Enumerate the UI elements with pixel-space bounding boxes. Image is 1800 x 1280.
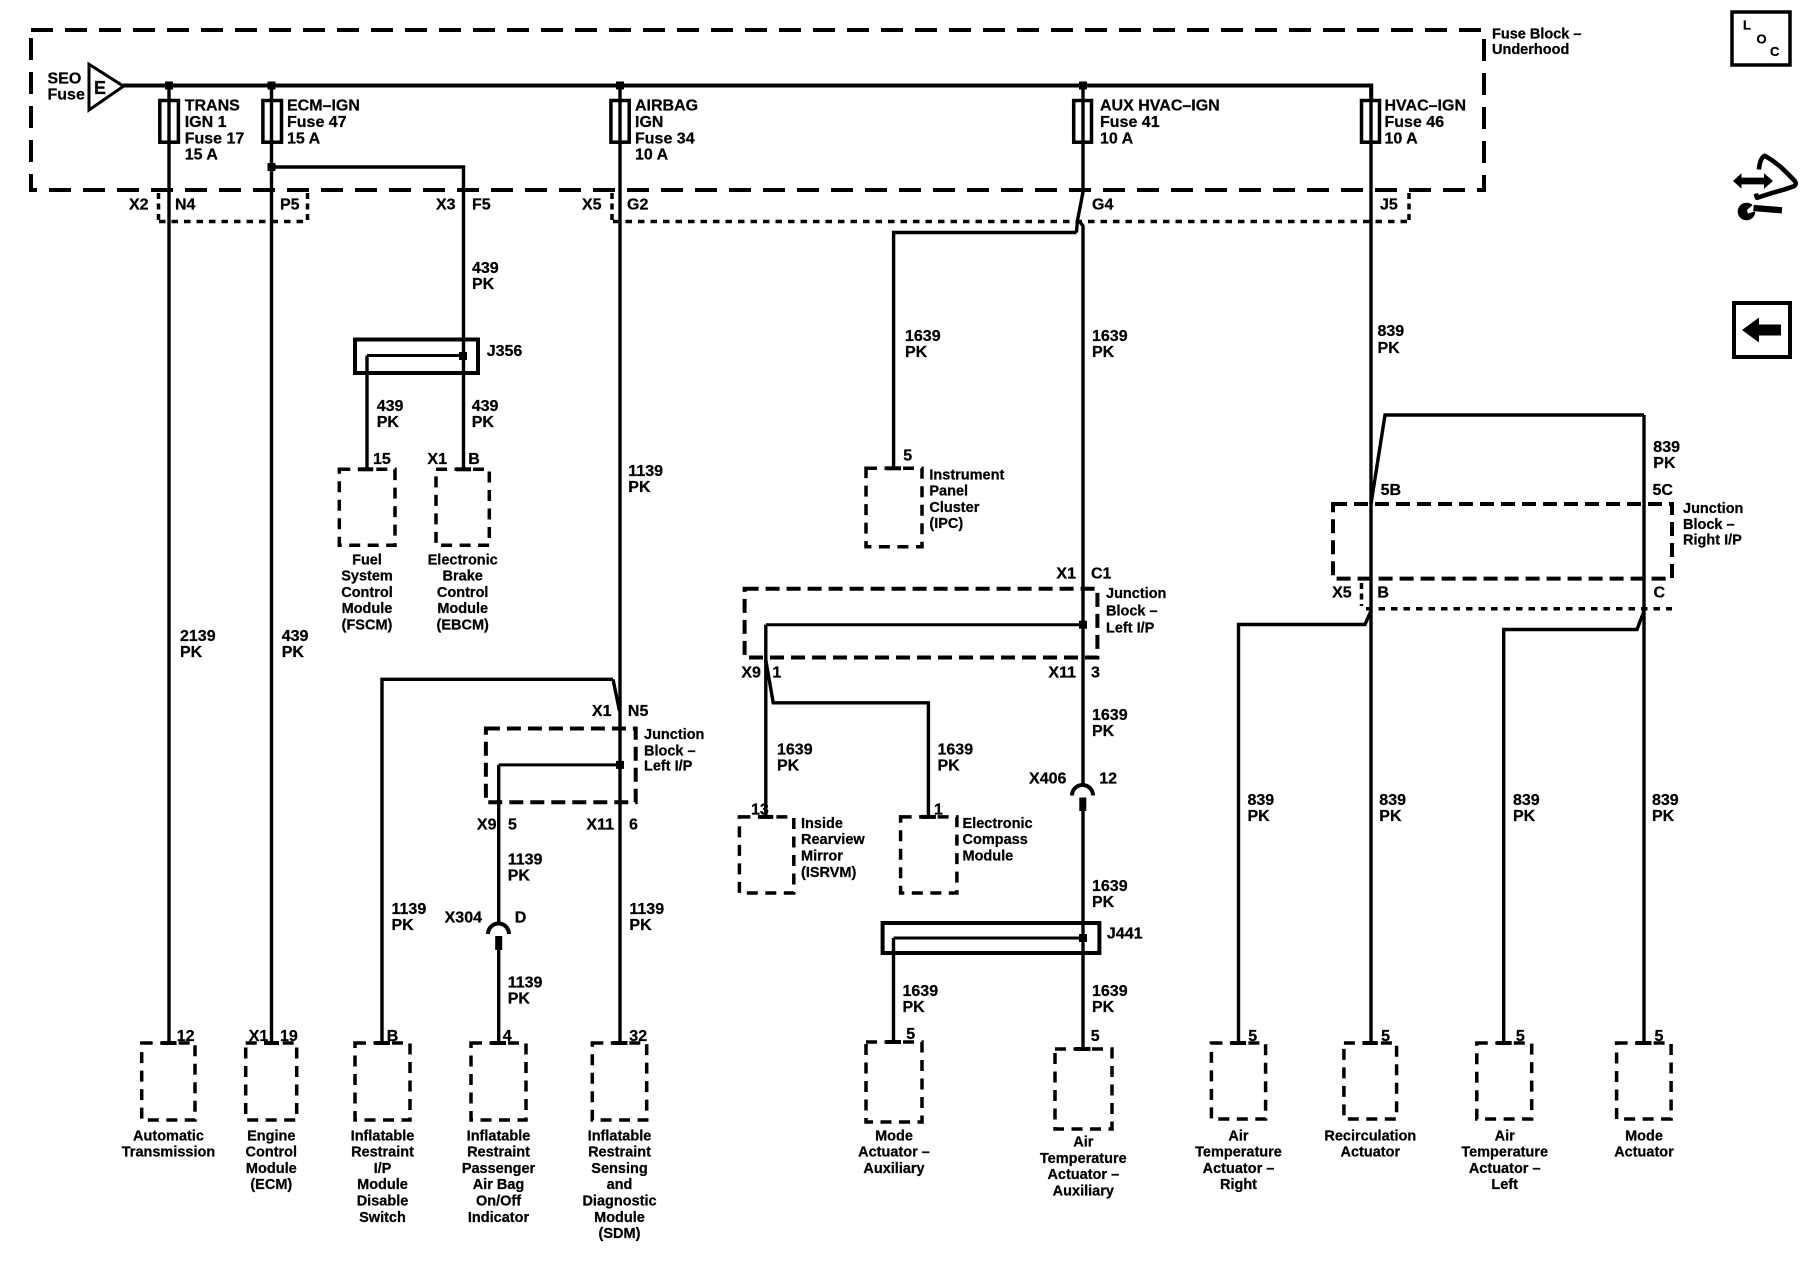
wire 1639 PK X11-3 down <box>1092 707 1128 740</box>
wire 1139 PK X304 to indicator <box>497 950 500 1043</box>
svg-text:IGN: IGN <box>635 114 663 131</box>
connector mode actuator auxiliary box <box>866 1042 922 1122</box>
svg-text:Passenger: Passenger <box>462 1161 536 1177</box>
svg-text:PK: PK <box>1248 808 1271 825</box>
svg-text:1139: 1139 <box>629 901 664 918</box>
wire inside J356 <box>367 354 463 357</box>
junction block - left I/P middle dashed box <box>745 589 1098 658</box>
svg-text:J5: J5 <box>1380 196 1398 213</box>
svg-text:PK: PK <box>1092 723 1115 740</box>
svg-text:G2: G2 <box>627 196 648 213</box>
icon double arrow with wrench <box>1733 156 1796 221</box>
svg-text:839: 839 <box>1652 792 1679 809</box>
svg-text:Module: Module <box>357 1177 408 1193</box>
connector ISRVM box <box>739 817 793 893</box>
svg-text:Sensing: Sensing <box>591 1161 647 1177</box>
wire branch C to air temperature left <box>1504 611 1644 1043</box>
wire inside J441 <box>894 937 1084 940</box>
IPC label <box>929 467 1004 532</box>
svg-text:Recirculation: Recirculation <box>1324 1128 1416 1144</box>
svg-text:G4: G4 <box>1092 196 1113 213</box>
FSCM label <box>341 552 393 633</box>
compass label <box>963 816 1033 865</box>
svg-text:Restraint: Restraint <box>588 1145 651 1161</box>
svg-text:D: D <box>515 910 527 927</box>
svg-text:Auxiliary: Auxiliary <box>863 1161 924 1177</box>
svg-text:Actuator: Actuator <box>1340 1145 1400 1161</box>
pin X1 C1 <box>1056 565 1111 582</box>
svg-text:Fuse: Fuse <box>48 87 85 104</box>
node in middle junction block <box>1079 621 1087 629</box>
node at fuse 41 tap <box>1079 82 1087 90</box>
svg-text:Fuse 41: Fuse 41 <box>1100 114 1160 131</box>
right junction block strip separator <box>1360 583 1364 606</box>
svg-text:Temperature: Temperature <box>1040 1151 1127 1167</box>
svg-text:5C: 5C <box>1653 482 1674 499</box>
svg-text:Temperature: Temperature <box>1195 1145 1282 1161</box>
svg-text:839: 839 <box>1379 792 1406 809</box>
connector mode actuator box <box>1617 1043 1672 1119</box>
pin X9 1 <box>741 664 781 681</box>
svg-text:Temperature: Temperature <box>1461 1145 1548 1161</box>
svg-text:1639: 1639 <box>1092 328 1128 345</box>
svg-text:B: B <box>1377 585 1389 602</box>
svg-text:Control: Control <box>341 585 393 601</box>
junction block - right I/P dashed box <box>1333 504 1672 579</box>
svg-text:J441: J441 <box>1107 926 1143 943</box>
svg-text:X1: X1 <box>592 703 612 720</box>
svg-text:N4: N4 <box>175 196 196 213</box>
svg-text:Brake: Brake <box>443 569 483 585</box>
svg-text:Fuse Block –: Fuse Block – <box>1492 26 1581 42</box>
svg-text:Module: Module <box>437 601 488 617</box>
connector ECM box <box>246 1043 297 1120</box>
svg-text:SEO: SEO <box>48 71 82 88</box>
wire branch 1639 PK to IPC <box>894 233 1077 469</box>
svg-text:Cluster: Cluster <box>929 500 979 516</box>
svg-text:Actuator: Actuator <box>1614 1145 1674 1161</box>
wire 839 PK label to recirculation <box>1379 792 1406 825</box>
svg-text:PK: PK <box>903 999 926 1016</box>
svg-text:PK: PK <box>508 868 531 885</box>
svg-text:Instrument: Instrument <box>929 467 1004 483</box>
wire 1639 PK X9-1 to ISRVM <box>764 625 767 817</box>
wire 1639 PK X406 down <box>1081 811 1084 1049</box>
svg-text:1639: 1639 <box>1092 983 1128 1000</box>
svg-text:B: B <box>468 451 480 468</box>
svg-text:IGN 1: IGN 1 <box>185 114 227 131</box>
svg-text:Fuse 47: Fuse 47 <box>287 114 347 131</box>
svg-text:10 A: 10 A <box>1385 130 1419 147</box>
svg-text:Air: Air <box>1495 1128 1516 1144</box>
wire diagonal branch to compass <box>766 660 929 817</box>
svg-text:X3: X3 <box>436 196 456 213</box>
svg-text:Actuator –: Actuator – <box>1047 1167 1119 1183</box>
svg-text:TRANS: TRANS <box>185 98 240 115</box>
wire branch to disable switch <box>382 679 613 1043</box>
svg-text:439: 439 <box>472 398 499 415</box>
wire 2139 PK fuse17 to automatic transmission <box>167 86 170 1044</box>
svg-text:X9: X9 <box>477 817 497 834</box>
svg-text:Inside: Inside <box>801 816 843 832</box>
fuse F46 HVAC-IGN <box>1362 101 1380 143</box>
svg-text:10 A: 10 A <box>635 146 669 163</box>
svg-text:1139: 1139 <box>628 463 663 480</box>
svg-text:C: C <box>1770 44 1780 59</box>
svg-text:Transmission: Transmission <box>122 1145 215 1161</box>
wire 439 PK fuse47 to ECM <box>270 86 273 1044</box>
EBCM label <box>428 552 498 633</box>
connector J356 <box>355 340 522 374</box>
svg-text:Left I/P: Left I/P <box>1106 621 1155 637</box>
bottom pins row <box>177 1026 1664 1045</box>
svg-text:Disable: Disable <box>357 1194 409 1210</box>
wire branch B to air temperature right <box>1239 611 1372 1043</box>
svg-text:Fuse 34: Fuse 34 <box>635 130 695 147</box>
svg-text:Fuel: Fuel <box>352 552 382 568</box>
svg-text:(EBCM): (EBCM) <box>437 618 490 634</box>
svg-text:X1: X1 <box>427 451 447 468</box>
svg-text:5: 5 <box>508 817 517 834</box>
svg-text:Diagnostic: Diagnostic <box>582 1194 656 1210</box>
node in lower junction block <box>616 761 624 769</box>
svg-text:Right I/P: Right I/P <box>1683 533 1742 549</box>
svg-text:Actuator –: Actuator – <box>858 1145 930 1161</box>
svg-text:ECM–IGN: ECM–IGN <box>287 98 360 115</box>
svg-text:PK: PK <box>1092 894 1115 911</box>
wire 1639 PK label to air temp auxiliary <box>1092 983 1128 1016</box>
svg-text:6: 6 <box>629 817 638 834</box>
svg-text:PK: PK <box>1092 999 1115 1016</box>
right junction block strip dotted bottom <box>1366 607 1672 611</box>
svg-text:Module: Module <box>246 1161 297 1177</box>
svg-text:10 A: 10 A <box>1100 130 1134 147</box>
connector air temperature actuator right box <box>1211 1043 1265 1119</box>
svg-text:Auxiliary: Auxiliary <box>1053 1183 1114 1199</box>
svg-text:Mirror: Mirror <box>801 849 843 865</box>
svg-text:E: E <box>94 78 106 98</box>
fuse F47 ECM-IGN <box>263 101 282 143</box>
svg-text:X11: X11 <box>586 817 614 834</box>
connector compass box <box>901 817 957 893</box>
svg-text:1139: 1139 <box>508 975 543 992</box>
pin X1 B EBCM <box>427 451 479 468</box>
node at fuse 47 tap <box>268 82 276 90</box>
svg-text:2139: 2139 <box>180 628 216 645</box>
pin X1 N5 <box>592 703 649 720</box>
fuse F34 AIRBAG IGN <box>611 101 629 143</box>
svg-text:1639: 1639 <box>1092 707 1128 724</box>
wire 439 PK J356 to FSCM <box>365 356 368 469</box>
svg-text:PK: PK <box>472 414 495 431</box>
svg-text:On/Off: On/Off <box>476 1194 521 1210</box>
svg-text:Actuator –: Actuator – <box>1203 1161 1275 1177</box>
svg-text:839: 839 <box>1513 792 1540 809</box>
pin X11 6 <box>586 817 638 834</box>
connector disable switch box <box>355 1043 410 1120</box>
svg-text:Rearview: Rearview <box>801 832 865 848</box>
svg-text:(ECM): (ECM) <box>250 1177 292 1193</box>
connector SDM box <box>592 1043 646 1120</box>
svg-text:Block –: Block – <box>1106 603 1158 619</box>
svg-text:PK: PK <box>1652 808 1675 825</box>
svg-text:1: 1 <box>772 664 781 681</box>
node in J441 <box>1079 934 1087 942</box>
wire 1139 PK X9-5 down <box>497 765 500 924</box>
svg-text:O: O <box>1757 32 1767 47</box>
svg-text:Restraint: Restraint <box>467 1145 530 1161</box>
svg-text:1639: 1639 <box>903 983 939 1000</box>
svg-text:Fuse 46: Fuse 46 <box>1385 114 1445 131</box>
node in J356 <box>459 352 467 360</box>
connector IPC box <box>866 468 922 546</box>
svg-text:PK: PK <box>1379 808 1402 825</box>
svg-text:Restraint: Restraint <box>351 1145 414 1161</box>
svg-text:Module: Module <box>963 849 1014 865</box>
svg-text:Left I/P: Left I/P <box>644 758 693 774</box>
svg-text:839: 839 <box>1653 439 1680 456</box>
svg-text:Module: Module <box>594 1210 645 1226</box>
svg-text:PK: PK <box>472 276 495 293</box>
svg-text:PK: PK <box>508 991 531 1008</box>
svg-text:Inflatable: Inflatable <box>467 1128 531 1144</box>
svg-text:Mode: Mode <box>875 1128 913 1144</box>
svg-text:439: 439 <box>282 628 309 645</box>
connector passenger airbag indicator box <box>471 1043 526 1120</box>
connector J441 <box>883 923 1143 953</box>
pin X9 5 <box>477 817 517 834</box>
connector FSCM box <box>339 469 395 545</box>
svg-text:Indicator: Indicator <box>468 1210 530 1226</box>
svg-text:Junction: Junction <box>1106 586 1166 602</box>
svg-text:15: 15 <box>373 451 391 468</box>
svg-text:1639: 1639 <box>905 328 941 345</box>
node at fuse 17 tap <box>165 82 173 90</box>
svg-text:Compass: Compass <box>963 832 1028 848</box>
svg-text:3: 3 <box>1091 664 1100 681</box>
fuse F41 AUX HVAC-IGN <box>1074 101 1092 143</box>
connector strip bottom dotted lines <box>159 220 1408 224</box>
wire 839 PK label to mode actuator <box>1652 792 1679 825</box>
svg-text:C: C <box>1654 585 1666 602</box>
wire inside middle junction block <box>766 623 1083 626</box>
svg-text:5B: 5B <box>1381 482 1401 499</box>
svg-text:PK: PK <box>629 917 652 934</box>
connector EBCM box <box>436 469 489 545</box>
svg-text:PK: PK <box>1513 808 1536 825</box>
bus wire from SEO fuse <box>123 86 1371 101</box>
svg-text:X304: X304 <box>445 910 482 927</box>
svg-text:1639: 1639 <box>1092 878 1128 895</box>
wire 1139 PK fuse34 down <box>618 86 621 1044</box>
svg-text:Panel: Panel <box>929 484 968 500</box>
svg-text:System: System <box>341 569 393 585</box>
svg-text:PK: PK <box>905 344 928 361</box>
svg-text:Block –: Block – <box>1683 517 1735 533</box>
junction block - left I/P lower dashed box <box>486 729 636 803</box>
svg-text:X5: X5 <box>582 196 602 213</box>
svg-text:15 A: 15 A <box>185 146 219 163</box>
svg-text:PK: PK <box>628 479 651 496</box>
svg-text:(FSCM): (FSCM) <box>342 618 393 634</box>
svg-text:Inflatable: Inflatable <box>588 1128 652 1144</box>
svg-text:Fuse 17: Fuse 17 <box>185 130 245 147</box>
svg-text:439: 439 <box>377 398 404 415</box>
wire 839 PK fuse46 down <box>1369 86 1372 1044</box>
svg-text:C1: C1 <box>1091 565 1112 582</box>
wire 1639 PK fuse41 down <box>1077 86 1084 233</box>
svg-text:1139: 1139 <box>392 901 427 918</box>
ISRVM label <box>801 816 865 881</box>
svg-text:Air: Air <box>1228 1128 1249 1144</box>
svg-text:PK: PK <box>938 757 961 774</box>
svg-text:N5: N5 <box>628 703 649 720</box>
svg-text:Actuator –: Actuator – <box>1469 1161 1541 1177</box>
svg-text:Air Bag: Air Bag <box>473 1177 525 1193</box>
wire 1139 PK label to SDM <box>629 901 664 934</box>
wire diagonal join at X1 N5 <box>613 679 620 711</box>
svg-text:12: 12 <box>1099 771 1117 788</box>
svg-text:Engine: Engine <box>247 1128 295 1144</box>
svg-text:Switch: Switch <box>359 1210 406 1226</box>
connector strip separators <box>159 193 1410 220</box>
svg-text:Mode: Mode <box>1625 1128 1663 1144</box>
svg-text:J356: J356 <box>487 343 523 360</box>
SEO fuse triangle E <box>89 64 124 110</box>
svg-text:AIRBAG: AIRBAG <box>635 98 698 115</box>
pin X5 B <box>1332 585 1389 602</box>
svg-text:Right: Right <box>1220 1177 1257 1193</box>
svg-text:F5: F5 <box>472 196 491 213</box>
connector recirculation actuator box <box>1344 1043 1397 1119</box>
fuse F17 TRANS IGN 1 <box>160 101 179 143</box>
svg-text:I/P: I/P <box>374 1161 392 1177</box>
connector air temperature actuator left box <box>1477 1043 1532 1119</box>
connector automatic transmission box <box>142 1043 195 1120</box>
icon back arrow box <box>1734 303 1790 357</box>
svg-text:15 A: 15 A <box>287 130 321 147</box>
node at fuse 34 tap <box>616 82 624 90</box>
wire diagonal 5B to top branch <box>1371 415 1644 504</box>
svg-text:PK: PK <box>1378 340 1401 357</box>
svg-text:P5: P5 <box>280 196 300 213</box>
svg-text:Electronic: Electronic <box>428 552 498 568</box>
wire branch to X3 F5 <box>272 167 464 468</box>
svg-text:Block –: Block – <box>644 743 696 759</box>
svg-text:1639: 1639 <box>938 741 974 758</box>
svg-text:439: 439 <box>472 260 499 277</box>
svg-text:X11: X11 <box>1048 664 1076 681</box>
svg-text:839: 839 <box>1248 792 1275 809</box>
svg-text:Control: Control <box>246 1145 298 1161</box>
svg-text:HVAC–IGN: HVAC–IGN <box>1385 98 1467 115</box>
svg-text:Underhood: Underhood <box>1492 42 1569 58</box>
wire 439 PK label to EBCM <box>472 398 499 431</box>
splice X406 12 <box>1029 771 1117 812</box>
svg-text:PK: PK <box>1653 455 1676 472</box>
fuse block label <box>1492 26 1581 58</box>
svg-text:839: 839 <box>1378 323 1405 340</box>
wire 1639 PK J441 to mode actuator auxiliary <box>892 938 895 1042</box>
svg-text:PK: PK <box>777 757 800 774</box>
svg-text:Inflatable: Inflatable <box>351 1128 415 1144</box>
splice X304 D <box>445 910 527 951</box>
svg-text:Electronic: Electronic <box>963 816 1033 832</box>
svg-text:1639: 1639 <box>777 741 813 758</box>
svg-text:PK: PK <box>377 414 400 431</box>
svg-text:Control: Control <box>437 585 489 601</box>
fuse block - underhood dashed box <box>31 30 1484 190</box>
svg-text:X406: X406 <box>1029 771 1066 788</box>
svg-text:(IPC): (IPC) <box>929 516 963 532</box>
svg-text:(SDM): (SDM) <box>599 1226 641 1242</box>
svg-text:X1: X1 <box>1056 565 1076 582</box>
svg-text:1139: 1139 <box>508 852 543 869</box>
SEO Fuse label <box>48 71 85 104</box>
svg-text:PK: PK <box>1092 344 1115 361</box>
svg-text:X5: X5 <box>1332 585 1352 602</box>
wire inside lower junction block <box>499 763 620 766</box>
strip pin labels <box>129 196 1398 213</box>
svg-text:Air: Air <box>1073 1135 1094 1151</box>
svg-text:AUX HVAC–IGN: AUX HVAC–IGN <box>1100 98 1220 115</box>
svg-text:PK: PK <box>282 644 305 661</box>
svg-text:Junction: Junction <box>644 727 704 743</box>
svg-text:X2: X2 <box>129 196 149 213</box>
wire 839 PK to mode actuator <box>1642 415 1645 1043</box>
svg-text:PK: PK <box>392 917 415 934</box>
node ECM branch <box>268 163 276 171</box>
icon LOC box <box>1732 12 1790 65</box>
svg-text:5: 5 <box>1091 1028 1100 1045</box>
svg-text:Module: Module <box>342 601 393 617</box>
svg-text:(ISRVM): (ISRVM) <box>801 865 856 881</box>
svg-text:and: and <box>607 1177 633 1193</box>
svg-text:L: L <box>1743 18 1751 33</box>
svg-text:Left: Left <box>1491 1177 1518 1193</box>
pin X11 3 <box>1048 664 1100 681</box>
svg-text:Automatic: Automatic <box>133 1128 204 1144</box>
svg-text:PK: PK <box>180 644 203 661</box>
svg-text:X9: X9 <box>741 664 761 681</box>
svg-text:5: 5 <box>903 447 912 464</box>
connector air temperature actuator auxiliary box <box>1055 1049 1112 1129</box>
svg-text:Junction: Junction <box>1683 501 1743 517</box>
